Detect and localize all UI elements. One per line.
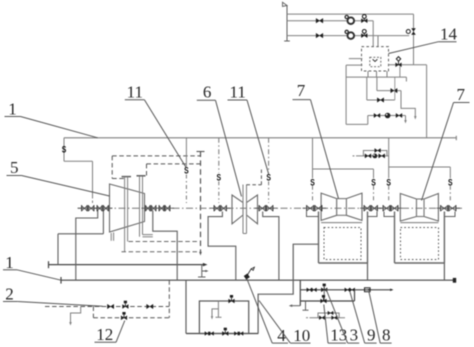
svg-text:S: S: [62, 144, 67, 154]
svg-text:14: 14: [440, 25, 458, 44]
svg-text:10: 10: [293, 326, 310, 345]
svg-text:8: 8: [382, 325, 391, 344]
svg-text:S: S: [217, 172, 222, 182]
svg-text:2: 2: [5, 285, 14, 304]
svg-text:12: 12: [96, 325, 113, 344]
svg-text:11: 11: [230, 83, 246, 102]
svg-text:1: 1: [5, 253, 14, 272]
svg-text:7: 7: [457, 85, 466, 104]
svg-text:9: 9: [367, 325, 376, 344]
svg-text:11: 11: [127, 83, 143, 102]
svg-text:7: 7: [297, 81, 306, 100]
svg-text:6: 6: [203, 83, 212, 102]
svg-text:S: S: [184, 166, 189, 176]
svg-text:5: 5: [10, 158, 19, 177]
svg-text:3: 3: [350, 325, 359, 344]
svg-text:1: 1: [8, 99, 17, 118]
